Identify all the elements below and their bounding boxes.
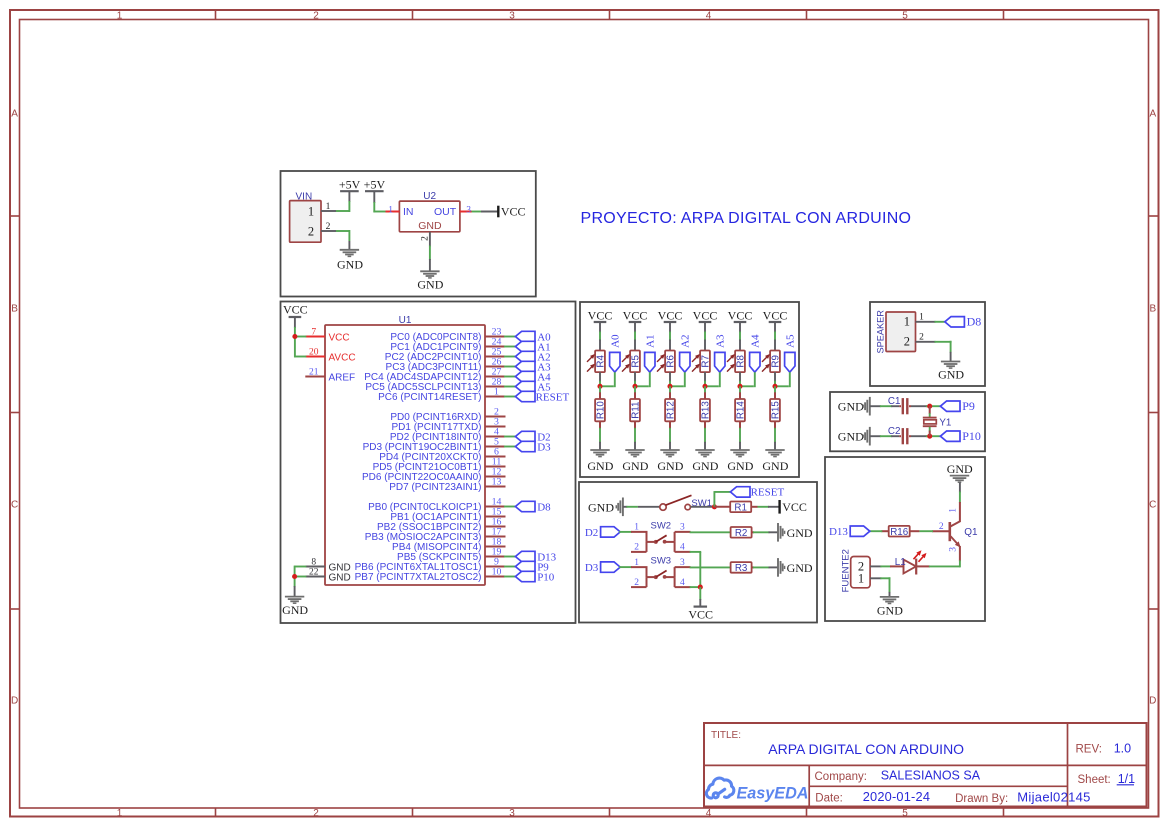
svg-text:3: 3 [680,558,685,568]
svg-text:R1: R1 [734,502,747,513]
svg-text:D8: D8 [537,501,551,513]
svg-text:7: 7 [311,328,316,338]
svg-text:GND: GND [838,430,864,444]
svg-text:VCC: VCC [501,204,526,218]
svg-text:VCC: VCC [728,308,753,322]
svg-text:GND: GND [657,459,683,473]
svg-text:Date:: Date: [815,792,843,804]
svg-text:2: 2 [308,224,314,238]
svg-text:TITLE:: TITLE: [711,730,741,741]
svg-text:VCC: VCC [588,308,613,322]
svg-text:1: 1 [117,10,123,21]
svg-text:13: 13 [492,477,502,488]
svg-text:GND: GND [692,459,718,473]
svg-text:GND: GND [329,572,351,583]
svg-text:Q1: Q1 [964,527,978,538]
svg-text:D3: D3 [585,562,599,574]
svg-text:GND: GND [947,462,973,476]
svg-text:1: 1 [634,558,639,568]
svg-text:D13: D13 [829,526,848,538]
svg-text:D: D [11,696,18,707]
svg-text:C: C [11,500,18,511]
svg-text:1: 1 [858,572,864,586]
svg-text:PD7 (PCINT23AIN1): PD7 (PCINT23AIN1) [389,482,481,493]
svg-text:D: D [1149,696,1156,707]
svg-text:EasyEDA: EasyEDA [737,785,809,803]
svg-text:1.0: 1.0 [1114,742,1131,756]
svg-text:GND: GND [417,278,443,292]
svg-text:1: 1 [326,202,331,212]
svg-text:2: 2 [420,236,430,241]
svg-text:U2: U2 [423,191,436,202]
svg-text:R5: R5 [631,354,642,367]
svg-text:3: 3 [509,808,515,819]
svg-text:GND: GND [282,603,308,617]
svg-text:R7: R7 [701,355,712,368]
svg-text:VCC: VCC [782,500,807,514]
svg-text:VCC: VCC [688,608,713,622]
svg-text:4: 4 [706,10,712,21]
svg-text:1: 1 [904,315,910,329]
svg-text:2020-01-24: 2020-01-24 [863,789,930,804]
svg-text:B: B [1149,304,1156,315]
svg-text:SW3: SW3 [651,556,672,567]
svg-text:Mijael02145: Mijael02145 [1017,789,1090,804]
svg-text:GND: GND [787,561,813,575]
svg-text:A5: A5 [785,334,797,348]
svg-text:A0: A0 [610,334,622,348]
svg-text:A2: A2 [680,334,692,347]
svg-text:2: 2 [904,335,910,349]
svg-text:GND: GND [337,258,363,272]
svg-text:1: 1 [388,205,393,215]
svg-text:1: 1 [117,808,123,819]
svg-text:21: 21 [309,368,319,378]
svg-text:PROYECTO: ARPA DIGITAL CON ARD: PROYECTO: ARPA DIGITAL CON ARDUINO [581,210,912,227]
svg-text:4: 4 [680,543,685,553]
svg-text:PC6 (PCINT14RESET): PC6 (PCINT14RESET) [378,392,481,403]
svg-text:1: 1 [494,387,499,398]
svg-text:2: 2 [634,578,639,588]
svg-text:A1: A1 [645,334,657,347]
svg-text:R13: R13 [701,401,712,420]
svg-text:SPEAKER: SPEAKER [875,310,885,354]
svg-text:R8: R8 [736,354,747,367]
svg-text:GND: GND [938,368,964,382]
svg-text:VCC: VCC [763,308,788,322]
svg-text:1: 1 [919,313,924,323]
svg-text:VCC: VCC [693,308,718,322]
svg-text:PB7 (PCINT7XTAL2TOSC2): PB7 (PCINT7XTAL2TOSC2) [355,572,482,583]
svg-text:AVCC: AVCC [329,352,356,363]
svg-text:R11: R11 [631,402,642,419]
svg-text:R3: R3 [735,563,748,574]
svg-text:GND: GND [727,459,753,473]
svg-text:P10: P10 [962,429,981,443]
svg-text:GND: GND [622,459,648,473]
svg-text:Drawn By:: Drawn By: [955,793,1008,805]
svg-text:REV:: REV: [1076,744,1102,756]
svg-text:SW2: SW2 [651,520,672,531]
svg-text:B: B [11,304,18,315]
svg-text:2: 2 [634,543,639,553]
svg-text:+5V: +5V [339,178,361,192]
svg-text:5: 5 [902,808,908,819]
svg-text:A: A [1149,109,1156,120]
svg-text:VCC: VCC [329,332,350,343]
svg-text:3: 3 [466,205,471,215]
svg-text:D2: D2 [585,527,598,539]
svg-text:1: 1 [634,523,639,533]
svg-text:1: 1 [949,508,959,513]
svg-text:2: 2 [313,10,319,21]
svg-text:AREF: AREF [329,372,356,383]
svg-text:IN: IN [403,206,414,218]
svg-text:D8: D8 [967,315,982,329]
svg-text:3: 3 [949,547,959,552]
svg-text:A3: A3 [715,334,727,348]
svg-text:GND: GND [787,526,813,540]
svg-text:SALESIANOS SA: SALESIANOS SA [881,768,981,782]
svg-text:R9: R9 [771,355,782,368]
svg-text:U1: U1 [399,315,412,326]
svg-text:RESET: RESET [536,391,570,403]
svg-text:3: 3 [680,523,685,533]
svg-text:VCC: VCC [658,308,683,322]
svg-text:1: 1 [308,204,314,218]
svg-text:VCC: VCC [283,302,308,316]
svg-text:C: C [1149,500,1156,511]
svg-text:1/1: 1/1 [1118,772,1135,786]
svg-text:3: 3 [509,10,515,21]
svg-text:C2: C2 [888,426,901,437]
svg-text:A4: A4 [750,334,762,348]
svg-text:VCC: VCC [623,308,648,322]
svg-text:GND: GND [838,400,864,414]
svg-text:8: 8 [311,558,316,568]
svg-text:GND: GND [587,459,613,473]
svg-text:Company:: Company: [815,771,867,783]
svg-text:R2: R2 [735,528,748,539]
svg-text:GND: GND [877,603,903,617]
svg-text:4: 4 [680,578,685,588]
svg-text:ARPA DIGITAL CON ARDUINO: ARPA DIGITAL CON ARDUINO [768,741,964,757]
svg-text:Sheet:: Sheet: [1078,774,1111,786]
svg-text:20: 20 [309,348,319,358]
svg-text:+5V: +5V [364,178,386,192]
svg-text:GND: GND [588,500,614,514]
svg-text:GND: GND [762,459,788,473]
svg-text:P10: P10 [537,571,555,583]
svg-text:10: 10 [492,567,502,578]
svg-text:C1: C1 [888,396,901,407]
svg-text:R16: R16 [890,527,909,538]
svg-text:GND: GND [418,220,442,232]
svg-text:P9: P9 [962,399,975,413]
svg-text:22: 22 [309,568,319,578]
svg-text:5: 5 [902,10,908,21]
svg-text:R15: R15 [771,401,782,420]
svg-text:OUT: OUT [434,206,457,218]
svg-text:RESET: RESET [751,487,785,499]
svg-text:L1: L1 [895,557,906,568]
svg-text:R4: R4 [596,354,607,367]
svg-text:R10: R10 [596,401,607,420]
svg-text:2: 2 [326,222,331,232]
svg-text:2: 2 [919,333,924,343]
svg-text:A: A [11,109,18,120]
svg-text:D3: D3 [537,441,551,453]
svg-text:FUENTE2: FUENTE2 [840,549,851,592]
svg-text:Y1: Y1 [939,417,951,428]
svg-text:R14: R14 [736,401,747,420]
svg-text:R12: R12 [666,401,677,419]
svg-text:4: 4 [706,808,712,819]
svg-text:2: 2 [313,808,319,819]
svg-text:R6: R6 [666,354,677,367]
